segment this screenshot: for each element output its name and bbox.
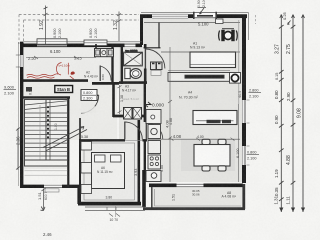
wall outer face line left	[17, 42, 19, 186]
wall: living room south	[149, 184, 243, 188]
dim arrow to window 0.900/2.100	[198, 7, 207, 9]
wall: bathroom east	[144, 44, 147, 49]
dashed roof overhang line lower	[24, 19, 140, 21]
wall: Stan B kitchenette stub	[95, 44, 97, 52]
window: top wall east segment with sill	[193, 12, 217, 19]
wall: sideboard back line	[161, 51, 240, 53]
dim line: right inner x=281.3	[280, 15, 282, 213]
dim line: left lower x=18	[17, 128, 19, 170]
red wavy underline	[27, 74, 59, 76]
stair center stringer	[45, 100, 47, 160]
wall: left exterior	[20, 42, 23, 188]
bedroom inner face outline	[84, 143, 135, 200]
radiator on west wall	[81, 163, 92, 174]
window: left room top wall west	[37, 39, 67, 44]
small wall box above stove	[216, 19, 224, 24]
stair landing edge	[25, 159, 68, 161]
hall cabinet right of bath door	[151, 62, 157, 70]
sideboard against north wall	[190, 52, 236, 68]
wall: top exterior right section	[140, 14, 247, 18]
closet on west wall top	[81, 142, 92, 151]
wall: stairwell east	[67, 97, 69, 187]
kitchen corner sink circle	[230, 73, 241, 84]
wall: step vertical at x=141	[140, 15, 143, 45]
shower cabin	[124, 52, 143, 66]
door: A2 vestibule, leaf	[99, 66, 101, 82]
bed	[92, 153, 125, 189]
dim line: right outer x=303	[302, 15, 304, 213]
sofa	[193, 111, 237, 125]
red blob	[71, 72, 75, 75]
window jamb ticks right wall	[247, 100, 250, 165]
washing machine	[124, 108, 133, 120]
door: kitchen swing arc	[146, 123, 163, 140]
dim line: room width at y57	[26, 57, 96, 59]
stove/fireplace	[221, 30, 224, 41]
wall: step between bottom-left and bedroom south	[77, 185, 80, 204]
wall: niche south	[113, 115, 146, 118]
wall: bedroom south	[78, 202, 141, 206]
door: corridor swing arc	[81, 95, 99, 113]
window: left room top wall east	[84, 40, 107, 46]
wall: bathroom west	[121, 47, 123, 84]
stair lower treads	[25, 171, 68, 175]
dim line: horizontal y=139.2 across living	[147, 138, 240, 140]
dim line: vertical at x=119	[118, 12, 120, 42]
terrace steps below bedroom	[85, 207, 145, 210]
wall: corridor west above bedroom	[79, 118, 81, 140]
terrace bottom wall	[143, 207, 245, 210]
dashed roof overhang left inner vertical	[23, 20, 25, 44]
wall: bottom-left	[21, 185, 81, 188]
window: living room south wall (terrace door)	[177, 184, 204, 188]
boiler	[133, 108, 142, 120]
door: bedroom swing arc	[125, 122, 143, 140]
window: right wall lower	[242, 146, 246, 165]
entry door in bottom-left wall	[44, 184, 62, 188]
wall: bedroom north	[79, 139, 125, 141]
door: corridor swing shading	[81, 98, 96, 114]
door: kitchen to corridor, leaf	[145, 123, 147, 140]
wall: inner face line below top wall	[144, 22, 240, 24]
red vertical stroke	[67, 63, 69, 75]
toilet	[125, 68, 130, 78]
dim line: vertical x=238.5	[238, 104, 240, 182]
wall: kitchen west heavy lower	[142, 170, 146, 207]
door: bathroom to hall, swing arc	[145, 49, 165, 69]
wall: right wall inner face	[238, 20, 240, 104]
stair winder treads	[25, 101, 68, 110]
door: corridor to stair hall, leaf	[81, 94, 99, 96]
dark mark left window sill	[26, 87, 32, 92]
floor tint bedroom	[81, 140, 137, 202]
door: bedroom, leaf	[124, 122, 126, 140]
dashed roof overhang line upper	[19, 14, 139, 16]
stair step numbers	[47, 106, 49, 138]
terrace left edge	[151, 187, 153, 208]
stair inner flight edge	[39, 105, 41, 160]
chair top-left	[202, 139, 210, 144]
wall: bedroom west	[79, 139, 81, 203]
wall: vestibule east	[158, 23, 160, 49]
dim line: bathroom vertical x=119.5	[119, 85, 121, 114]
wall: Stan B room south	[23, 79, 88, 82]
floor tint corridor	[24, 82, 117, 140]
kitchen counter dark worktop bar	[185, 75, 224, 78]
terrace inner line	[155, 189, 242, 206]
kitchen counter top run	[168, 73, 230, 82]
stairs outline	[25, 100, 68, 167]
pillow right	[111, 155, 122, 162]
text: plusminus 0.000	[145, 102, 165, 109]
chair bottom-left	[202, 166, 210, 171]
red hook curve	[57, 63, 62, 76]
wall: vestibule south stub	[144, 47, 161, 49]
stair treads	[25, 113, 68, 156]
dining table	[194, 145, 230, 167]
pillow left	[95, 155, 106, 162]
rug under dining table	[181, 140, 235, 172]
stair break diagonal with arrow	[43, 127, 84, 148]
wall: A2 vestibule south	[92, 82, 119, 85]
dim line: bottom-left x=43	[43, 189, 45, 211]
floor tint living area	[119, 19, 242, 182]
red diagonal	[70, 76, 74, 79]
floor tint stairwell	[24, 99, 68, 169]
wall: bedroom east / kitchen west lower	[138, 120, 141, 203]
window: top wall west segment	[152, 13, 188, 18]
window: right wall upper	[242, 100, 246, 123]
floor tint left rooms	[23, 46, 119, 82]
text: left fraction 9.600/2.100	[4, 85, 17, 96]
kitchenette counter	[95, 49, 114, 57]
wall: right exterior	[242, 15, 246, 183]
dashed roof overhang left vertical	[18, 15, 20, 45]
wall: between A2 vestibule and bathroom	[111, 44, 113, 84]
wall: stairwell north	[23, 96, 70, 98]
entry step outside door	[45, 189, 59, 192]
wall: top of left room	[20, 43, 142, 47]
window: bathroom in top wall	[125, 44, 136, 48]
dim line: right middle x=293	[292, 15, 294, 213]
floor tint terrace	[151, 185, 244, 209]
wall: kitchen west	[144, 84, 146, 122]
door: bathroom to hall, leaf	[144, 49, 146, 69]
door: A2 vestibule, swing arc	[100, 66, 111, 81]
chair bottom-right	[218, 166, 226, 171]
terrace right wall	[242, 184, 245, 209]
dim line: interior vertical x=170	[169, 47, 171, 182]
chair top-right	[218, 139, 226, 144]
wall: thin outer face above left room wall	[20, 41, 142, 43]
kitchen wall strip units	[146, 110, 161, 124]
wall: outer face line above top wall	[141, 11, 248, 13]
dim line: vertical at x=45.5 with 1.92	[45, 6, 47, 45]
dashed roof right vertical	[255, 15, 257, 24]
window jamb ticks left wall	[16, 55, 20, 67]
window: left exterior wall	[20, 55, 24, 67]
wall: bathroom south	[119, 81, 147, 84]
wall: niche west	[112, 84, 115, 117]
